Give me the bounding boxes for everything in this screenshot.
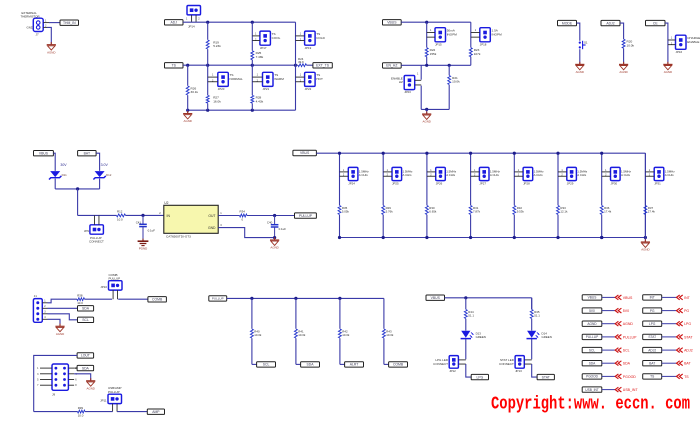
wire J9 right stubs bbox=[68, 368, 74, 385]
resistor R40 10.0k bbox=[250, 329, 253, 338]
jumper JP29 A CHG bbox=[567, 167, 577, 180]
svg-text:VBUS: VBUS bbox=[387, 21, 397, 25]
wire vertical x252 bbox=[251, 22, 253, 50]
wire bank column x470 bbox=[470, 153, 472, 205]
net flag USB_INT bbox=[582, 387, 602, 392]
svg-text:49.9: 49.9 bbox=[298, 60, 304, 64]
svg-text:PULLUP: PULLUP bbox=[586, 335, 598, 339]
svg-text:LPG: LPG bbox=[684, 322, 691, 326]
resistor R29 5.76k bbox=[382, 206, 385, 215]
svg-text:4.43k: 4.43k bbox=[256, 99, 264, 103]
svg-text:COLD: COLD bbox=[316, 36, 325, 40]
wire bank right drop bbox=[644, 153, 646, 237]
svg-text:GREEN: GREEN bbox=[476, 335, 486, 339]
svg-text:JP14: JP14 bbox=[188, 24, 195, 28]
svg-text:A CHG: A CHG bbox=[359, 173, 369, 177]
net flag AGND bbox=[582, 321, 602, 326]
node ADJ bbox=[165, 20, 184, 25]
node PULLUP (U2 out) bbox=[295, 213, 317, 218]
svg-text:JP12: JP12 bbox=[449, 369, 456, 373]
svg-text:PULLUP: PULLUP bbox=[108, 390, 120, 394]
net flag BAT bbox=[643, 361, 662, 366]
junction bbox=[600, 236, 603, 239]
node PULLUP (network) bbox=[209, 296, 227, 301]
wire to D12 bbox=[96, 153, 100, 171]
svg-text:NORMAL: NORMAL bbox=[230, 77, 244, 81]
wire network column x383 bbox=[383, 298, 385, 328]
node ALRT bbox=[345, 362, 364, 367]
wire bank gnd stem bbox=[644, 238, 646, 242]
junction bbox=[273, 236, 276, 239]
wire LOUT loop bbox=[34, 355, 77, 411]
wire JP23 to buses bbox=[420, 65, 422, 79]
wire D12 to bus bbox=[99, 179, 101, 189]
svg-text:IN: IN bbox=[167, 214, 171, 218]
junction bbox=[448, 64, 451, 67]
svg-text:AGND: AGND bbox=[47, 50, 55, 54]
svg-text:Copyright:www. eccn. com: Copyright:www. eccn. com bbox=[491, 395, 690, 415]
junction bbox=[464, 296, 467, 299]
LED D13 green bbox=[461, 331, 474, 339]
resistor R39 10.0 bbox=[78, 410, 86, 413]
node EXT_TS bbox=[313, 63, 332, 68]
wire R12 to U2 bbox=[126, 214, 164, 216]
wire JP10 to COMB bbox=[118, 298, 148, 300]
svg-text:AGND: AGND bbox=[56, 332, 64, 336]
resistor R20 10.0k bbox=[622, 39, 625, 48]
jumper JP30 A CHG bbox=[611, 167, 621, 180]
svg-text:30V: 30V bbox=[60, 163, 67, 167]
svg-text:PGOOD: PGOOD bbox=[586, 375, 599, 379]
resistor R24 (EXT_TS tap) bbox=[296, 64, 299, 66]
svg-text:C40: C40 bbox=[267, 220, 273, 224]
op IC U2 regulator bbox=[164, 201, 218, 239]
ground AGND (J7) bbox=[47, 42, 56, 54]
svg-text:10.0k: 10.0k bbox=[342, 333, 350, 337]
wire to D11 bbox=[53, 153, 55, 171]
svg-text:PGOOD: PGOOD bbox=[623, 375, 637, 379]
resistor R22 155k bbox=[425, 48, 428, 57]
svg-text:10.0: 10.0 bbox=[78, 413, 84, 417]
svg-text:0.1uF: 0.1uF bbox=[148, 228, 156, 232]
svg-text:9.53k: 9.53k bbox=[517, 210, 525, 214]
copyright text bbox=[491, 395, 690, 415]
wire vertical x449 bbox=[448, 65, 450, 75]
resistor R31 7.87k bbox=[469, 206, 472, 215]
resistor R34 0 bbox=[240, 214, 248, 217]
svg-text:ALRT: ALRT bbox=[350, 363, 359, 367]
junction bbox=[425, 108, 428, 111]
svg-text:A CHG: A CHG bbox=[621, 173, 631, 177]
resistor R45 51.1 bbox=[530, 310, 533, 319]
ground AGND (grid) bbox=[183, 111, 192, 123]
resistor R37 27.4k bbox=[644, 206, 647, 215]
wire pullup bus bbox=[227, 297, 384, 299]
wire zener bus bbox=[55, 188, 99, 190]
svg-text:LPG: LPG bbox=[476, 375, 483, 379]
svg-text:SCL: SCL bbox=[589, 348, 595, 352]
svg-text:VBUS: VBUS bbox=[623, 296, 633, 300]
wire led bus bbox=[445, 297, 532, 299]
jumper JP31 A CHG bbox=[654, 167, 664, 180]
svg-text:THERMISTOR: THERMISTOR bbox=[21, 15, 40, 19]
svg-text:WARM: WARM bbox=[274, 77, 284, 81]
svg-text:TS: TS bbox=[172, 64, 177, 68]
ground AGND (bank) bbox=[641, 239, 650, 251]
svg-text:PULLUP: PULLUP bbox=[623, 335, 637, 339]
svg-text:VBUS: VBUS bbox=[588, 296, 597, 300]
junction bbox=[600, 152, 603, 155]
svg-text:JP19: JP19 bbox=[305, 46, 312, 50]
svg-text:5V0: 5V0 bbox=[623, 309, 629, 313]
junction bbox=[251, 109, 254, 112]
junction bbox=[382, 152, 385, 155]
svg-text:SCL: SCL bbox=[263, 363, 270, 367]
wire bank column x514 bbox=[513, 153, 515, 205]
wire J9 pin4 to gnd bbox=[74, 374, 91, 381]
wire J1 pin2 bbox=[42, 307, 47, 309]
svg-text:COOL: COOL bbox=[272, 36, 281, 40]
svg-text:ADJ: ADJ bbox=[171, 21, 178, 25]
svg-text:STAT: STAT bbox=[542, 375, 550, 379]
junction bbox=[338, 152, 341, 155]
svg-text:A CHG: A CHG bbox=[534, 173, 544, 177]
wire vertical x207 bbox=[207, 22, 209, 40]
node VBUS (bank) bbox=[293, 150, 317, 155]
svg-text:JP17: JP17 bbox=[260, 46, 267, 50]
wire J1 pin1 bbox=[42, 302, 47, 304]
node VIN3 bbox=[78, 151, 97, 156]
wire J1 pin4 bbox=[42, 318, 47, 320]
jumper JP25 A CHG bbox=[392, 167, 402, 180]
junction bbox=[425, 21, 428, 24]
net flag PG bbox=[643, 308, 662, 313]
svg-text:R38: R38 bbox=[77, 293, 83, 297]
svg-text:A CHG: A CHG bbox=[490, 173, 500, 177]
resistor R38 10.0 bbox=[77, 298, 85, 301]
svg-text:51.1: 51.1 bbox=[468, 314, 474, 318]
junction bbox=[469, 152, 472, 155]
wire bank column x601 bbox=[601, 153, 603, 205]
svg-text:JP18: JP18 bbox=[480, 42, 487, 46]
svg-text:JP31: JP31 bbox=[654, 182, 661, 186]
svg-text:JP13: JP13 bbox=[515, 369, 522, 373]
resistor R32 9.53k bbox=[513, 206, 516, 215]
jumper JP17 TS COOL bbox=[260, 31, 271, 45]
node TP2 bbox=[601, 20, 620, 25]
wire enable bottom bbox=[421, 108, 449, 110]
connector J1 bbox=[33, 299, 42, 323]
svg-text:JP22: JP22 bbox=[305, 87, 312, 91]
node VIN30 bbox=[34, 151, 54, 156]
svg-text:CAT6500TDI-GT3: CAT6500TDI-GT3 bbox=[166, 235, 191, 239]
svg-text:10.0: 10.0 bbox=[77, 301, 83, 305]
svg-text:TS: TS bbox=[684, 375, 689, 379]
wire top bus y22 bbox=[183, 21, 296, 23]
wire vbus bus bbox=[401, 21, 471, 23]
svg-text:AGND: AGND bbox=[587, 322, 597, 326]
wire down to IN net bbox=[77, 189, 79, 216]
wire vertical x295 bbox=[295, 22, 297, 110]
ground AGND (S1) bbox=[575, 62, 584, 74]
node SDA bbox=[301, 362, 320, 367]
svg-text:CE: CE bbox=[653, 21, 658, 25]
svg-text:J1: J1 bbox=[34, 294, 37, 298]
wire D11 to bus bbox=[54, 179, 56, 189]
svg-text:JP15: JP15 bbox=[435, 42, 442, 46]
wire bank column x383 bbox=[382, 153, 384, 205]
resistor R30 6.65k bbox=[425, 206, 428, 215]
node SDA2 bbox=[77, 365, 94, 370]
svg-text:PGND: PGND bbox=[139, 246, 147, 250]
svg-text:SDA: SDA bbox=[82, 366, 90, 370]
junction bbox=[644, 236, 647, 239]
wire led column D13 bbox=[465, 298, 467, 310]
junction bbox=[469, 236, 472, 239]
jumper JP18 1.5A INOPM bbox=[480, 28, 491, 42]
junction bbox=[186, 64, 189, 67]
svg-text:A CHG: A CHG bbox=[665, 173, 675, 177]
svg-text:10.0k: 10.0k bbox=[627, 43, 635, 47]
net flag PULLUP bbox=[582, 334, 602, 339]
wire to JP16 bbox=[665, 23, 668, 64]
jumper JP21 TS WARM bbox=[263, 72, 274, 86]
resistor R42 10.0k bbox=[338, 329, 341, 338]
wire network column x295 bbox=[295, 298, 297, 328]
junction bbox=[425, 64, 428, 67]
svg-text:A CHG: A CHG bbox=[446, 173, 456, 177]
switch S1 bbox=[579, 41, 586, 49]
junction bbox=[273, 214, 276, 217]
svg-text:USB_INT: USB_INT bbox=[585, 388, 599, 392]
wire jumper to net LPG bbox=[466, 364, 471, 377]
node VBUS (enable) bbox=[383, 20, 402, 25]
svg-text:LOUT: LOUT bbox=[81, 354, 90, 358]
svg-text:AGND: AGND bbox=[184, 119, 192, 123]
svg-text:HOT: HOT bbox=[316, 77, 323, 81]
svg-text:AGND: AGND bbox=[641, 248, 649, 252]
svg-text:7.48k: 7.48k bbox=[256, 55, 264, 59]
wire J7 pin2 down bbox=[43, 26, 47, 28]
svg-text:MODE: MODE bbox=[562, 21, 573, 25]
svg-text:JP10: JP10 bbox=[100, 285, 107, 289]
svg-text:USB_INT: USB_INT bbox=[623, 388, 639, 392]
svg-text:TS: TS bbox=[650, 375, 654, 379]
junction bbox=[513, 236, 516, 239]
svg-text:J9: J9 bbox=[52, 392, 55, 396]
resistor R25 7.48k bbox=[251, 51, 254, 60]
jumper JP20 TS NORMAL bbox=[218, 72, 229, 86]
svg-text:30.1k: 30.1k bbox=[191, 90, 199, 94]
svg-text:27.4k: 27.4k bbox=[648, 210, 656, 214]
junction bbox=[556, 152, 559, 155]
net flag VBUS bbox=[582, 295, 602, 300]
svg-text:10.0k: 10.0k bbox=[452, 80, 460, 84]
wire U2 GND bbox=[218, 228, 274, 238]
svg-text:CONNECT: CONNECT bbox=[433, 362, 448, 366]
jumper JP15 50mA INOPM bbox=[435, 28, 446, 42]
resistor R41 10.0k bbox=[294, 329, 297, 338]
svg-text:PG: PG bbox=[684, 309, 689, 313]
svg-text:JP30: JP30 bbox=[611, 182, 618, 186]
svg-text:COMB: COMB bbox=[393, 363, 404, 367]
node LPG bbox=[471, 374, 488, 379]
svg-text:ENABLE: ENABLE bbox=[687, 40, 699, 44]
connector J7 EXTERNAL THERMISTOR bbox=[33, 18, 43, 31]
svg-text:0.1uF: 0.1uF bbox=[279, 227, 287, 231]
jumper JP22 TS HOT bbox=[305, 72, 316, 86]
ground AGND (C40) bbox=[270, 237, 279, 249]
net flag TS bbox=[643, 374, 662, 379]
svg-text:S1: S1 bbox=[584, 40, 588, 44]
svg-text:R12: R12 bbox=[117, 210, 123, 214]
wire en bus bbox=[401, 64, 471, 66]
svg-text:BAT: BAT bbox=[84, 151, 90, 155]
svg-text:5V0: 5V0 bbox=[589, 309, 595, 313]
wire bank bottom bus bbox=[340, 237, 646, 239]
junction bbox=[294, 297, 297, 300]
node THM_IN bbox=[60, 20, 79, 25]
svg-text:PULLUP: PULLUP bbox=[109, 277, 121, 281]
wire bank column x426 bbox=[426, 153, 428, 205]
wire S1 to gnd bbox=[579, 49, 581, 64]
svg-text:17.4k: 17.4k bbox=[604, 210, 612, 214]
jumper JP23 ENABLE HZ bbox=[404, 76, 415, 90]
resistor R35 5.05k bbox=[338, 206, 341, 215]
wire vertical x187 bbox=[187, 65, 189, 86]
jumper JP12 LPG LED CONNECT bbox=[449, 356, 458, 369]
jumper JP28 A CHG bbox=[523, 167, 533, 180]
node LOUT bbox=[77, 353, 94, 358]
svg-text:JP25: JP25 bbox=[392, 182, 399, 186]
svg-text:SDA: SDA bbox=[623, 362, 631, 366]
svg-text:GND: GND bbox=[27, 25, 33, 29]
wire U2 OUT bbox=[218, 215, 239, 217]
net flag PGOOD bbox=[582, 374, 602, 379]
svg-text:STAT: STAT bbox=[684, 335, 693, 339]
svg-text:JP29: JP29 bbox=[567, 182, 574, 186]
junction bbox=[425, 152, 428, 155]
svg-text:AGND: AGND bbox=[270, 246, 278, 250]
svg-text:A CHG: A CHG bbox=[577, 173, 587, 177]
svg-text:5.05k: 5.05k bbox=[342, 210, 350, 214]
wire to R20 bbox=[620, 23, 624, 39]
wire JP11 to AMP bbox=[117, 411, 147, 413]
svg-text:JP9: JP9 bbox=[84, 229, 89, 233]
svg-text:107k: 107k bbox=[474, 52, 481, 56]
jumper JP27 A CHG bbox=[479, 167, 489, 180]
wire jumper to net STAT bbox=[532, 364, 537, 377]
junction bbox=[206, 64, 209, 67]
node COMB bbox=[389, 362, 408, 367]
jumper JP24 A CHG bbox=[348, 167, 358, 180]
jumper JP9 PULLUP CONNECT bbox=[90, 225, 104, 234]
svg-text:COMB: COMB bbox=[152, 298, 163, 302]
wire J1 pin3 bbox=[42, 313, 47, 315]
svg-text:JP11: JP11 bbox=[100, 399, 107, 403]
jumper JP14 bbox=[187, 6, 201, 15]
junction bbox=[338, 236, 341, 239]
jumper JP11 USB/AMP PULLUP bbox=[108, 394, 122, 403]
svg-text:6.65k: 6.65k bbox=[429, 210, 437, 214]
svg-text:AGND: AGND bbox=[664, 70, 672, 74]
ground AGND (R20) bbox=[619, 62, 628, 74]
svg-text:JP21: JP21 bbox=[263, 87, 270, 91]
svg-text:JP27: JP27 bbox=[479, 182, 486, 186]
svg-text:AGND: AGND bbox=[87, 386, 95, 390]
svg-text:PULLUP: PULLUP bbox=[212, 297, 224, 301]
node AMP bbox=[147, 409, 164, 414]
svg-text:SCL: SCL bbox=[82, 318, 89, 322]
svg-text:AMP: AMP bbox=[152, 410, 160, 414]
zener D11 30V bbox=[49, 171, 61, 179]
svg-text:51.1: 51.1 bbox=[534, 314, 540, 318]
svg-text:THM_IN: THM_IN bbox=[63, 21, 76, 25]
ground AGND (J1) bbox=[55, 324, 64, 336]
resistor R27 16.0k bbox=[206, 95, 209, 103]
wire enable gnd stem bbox=[426, 109, 428, 113]
svg-text:12.1k: 12.1k bbox=[560, 210, 568, 214]
svg-text:3.0V: 3.0V bbox=[101, 163, 109, 167]
svg-text:10.0k: 10.0k bbox=[386, 333, 394, 337]
svg-text:10.0k: 10.0k bbox=[254, 333, 262, 337]
svg-text:INOPM: INOPM bbox=[447, 32, 458, 36]
junction bbox=[600, 236, 603, 239]
svg-text:JP20: JP20 bbox=[218, 87, 225, 91]
svg-text:SDA: SDA bbox=[82, 307, 90, 311]
ground AGND (JP16) bbox=[663, 62, 672, 74]
ground AGND (J9) bbox=[86, 378, 95, 390]
node COMB bbox=[148, 297, 167, 302]
junction bbox=[556, 236, 559, 239]
svg-text:7.87k: 7.87k bbox=[473, 210, 481, 214]
svg-text:VBUS: VBUS bbox=[431, 296, 441, 300]
svg-text:C41: C41 bbox=[136, 220, 142, 224]
svg-text:D12: D12 bbox=[106, 173, 112, 177]
wire to S1 bbox=[577, 23, 580, 41]
wire bank column x339 bbox=[339, 153, 341, 205]
junction bbox=[382, 236, 385, 239]
svg-text:D11: D11 bbox=[62, 173, 67, 177]
node CHG_EN bbox=[646, 20, 666, 25]
svg-text:JP26: JP26 bbox=[436, 182, 443, 186]
svg-text:SDA: SDA bbox=[589, 361, 596, 365]
svg-text:STAT: STAT bbox=[648, 335, 656, 339]
LED D14 green bbox=[527, 331, 540, 339]
wire TS bus y65 bbox=[183, 64, 296, 66]
junction bbox=[141, 214, 144, 217]
resistor R43 10.0k bbox=[382, 329, 385, 338]
node STAT bbox=[537, 374, 554, 379]
node SCL bbox=[257, 362, 276, 367]
svg-text:BAT: BAT bbox=[684, 362, 691, 366]
junction bbox=[76, 187, 79, 190]
node MODE bbox=[558, 20, 577, 25]
jumper JP10 COMB PULLUP bbox=[109, 281, 123, 290]
junction bbox=[294, 64, 297, 67]
net flag LPG bbox=[643, 321, 662, 326]
connector J9 bbox=[52, 364, 68, 390]
net flag STAT bbox=[643, 334, 662, 339]
resistor R12 10.0 bbox=[117, 214, 126, 217]
svg-text:R39: R39 bbox=[78, 406, 84, 410]
resistor R21 10.0k bbox=[448, 76, 451, 85]
wire J9 left stubs bbox=[40, 368, 52, 385]
svg-text:INOPM: INOPM bbox=[492, 32, 503, 36]
resistor R28 4.43k bbox=[251, 95, 254, 103]
wire led column D14 bbox=[531, 298, 533, 310]
svg-text:JP24: JP24 bbox=[348, 182, 355, 186]
